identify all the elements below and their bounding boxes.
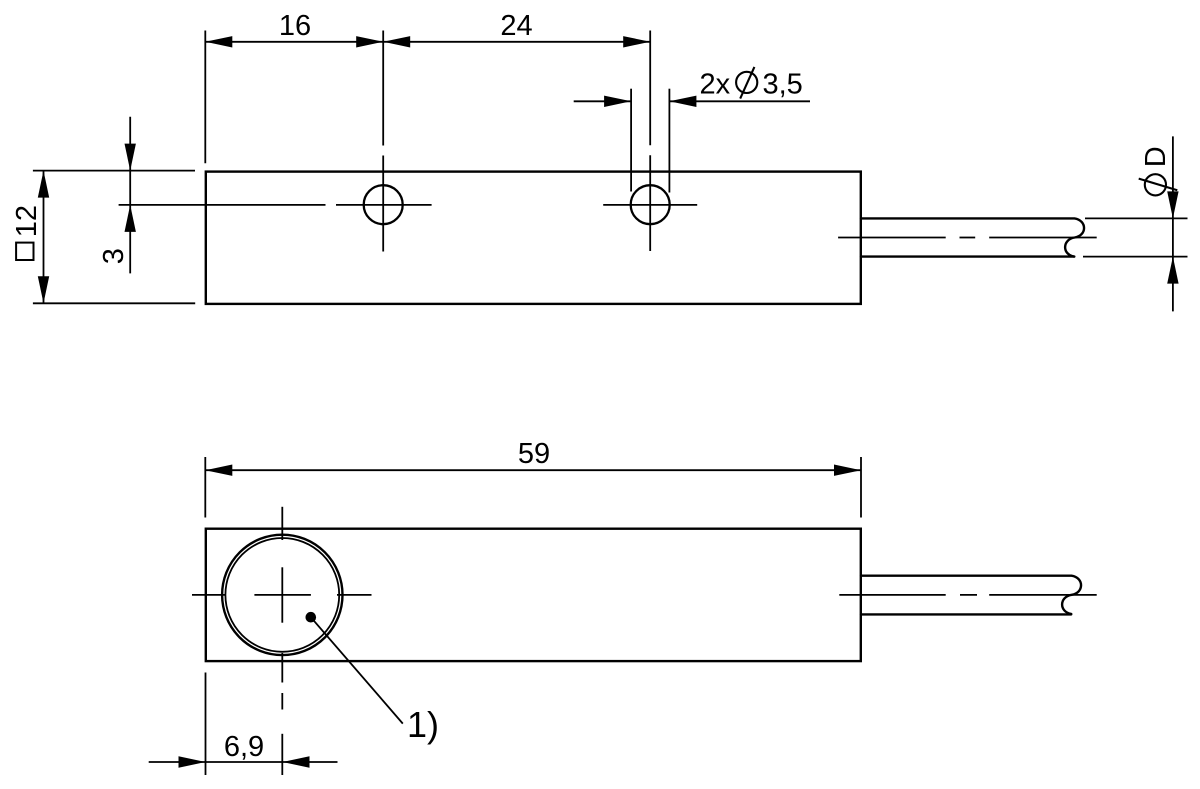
dimension 16 / 24 (top)	[205, 31, 650, 164]
cable top edge	[861, 218, 1084, 256]
dimension 2x dia 3,5	[574, 100, 810, 102]
arrowheads for dimension 2x dia 3,5	[604, 96, 696, 107]
dimension box 12 (left)	[33, 171, 195, 304]
arrowheads for dimension 3	[125, 144, 136, 232]
svg-text:24: 24	[500, 10, 532, 42]
svg-text:D: D	[1140, 146, 1172, 167]
cable (side view)	[861, 218, 1084, 256]
extension line through hole H1	[382, 31, 384, 146]
svg-text:16: 16	[279, 10, 311, 42]
face circle centre lines	[192, 507, 372, 775]
note leader line	[311, 617, 403, 723]
sensing face inner circle	[225, 538, 339, 652]
cable centre line (dash-dot)	[838, 237, 1097, 239]
mounting hole H1	[364, 185, 403, 224]
sensor body (face view rectangle)	[206, 529, 861, 661]
arrowheads for dimension box 12	[38, 171, 49, 304]
extension line through hole H2	[649, 31, 651, 146]
label square 12 (rotated)	[16, 243, 33, 260]
arrowheads for dimensions 16 and 24	[205, 36, 650, 47]
sensor body (side view rectangle)	[206, 172, 861, 304]
label dia D (rotated)	[1139, 174, 1178, 195]
svg-text:1): 1)	[407, 704, 439, 745]
svg-text:3,5: 3,5	[763, 68, 803, 100]
dimension dia D (cable, right)	[1083, 136, 1188, 311]
dimension 59	[205, 457, 861, 518]
dimension 6,9	[149, 673, 338, 776]
dimension line	[205, 41, 650, 43]
hole H1 centre lines	[119, 156, 432, 252]
arrowheads for dimension dia D	[1167, 191, 1178, 283]
tangent extension lines for hole dia	[630, 89, 632, 192]
diameter symbol of 3,5	[736, 67, 757, 99]
cable (face view)	[861, 576, 1081, 615]
mounting hole H2	[631, 185, 670, 224]
dimension 3 (hole offset)	[129, 117, 131, 274]
extension line at body left	[204, 31, 206, 164]
note leader dot	[306, 612, 317, 623]
hole H2 centre lines	[603, 89, 697, 251]
svg-text:59: 59	[518, 438, 550, 470]
cable bottom edge	[861, 255, 1074, 257]
cable centre line (dash-dot)	[839, 594, 1096, 596]
svg-text:3: 3	[98, 248, 130, 264]
arrowheads for dimension 6,9	[179, 756, 310, 767]
arrowheads for dimension 59	[205, 465, 861, 476]
svg-text:12: 12	[11, 205, 43, 237]
svg-text:6,9: 6,9	[224, 731, 264, 763]
svg-text:2x: 2x	[700, 68, 731, 100]
sensing face outer circle	[222, 535, 342, 655]
